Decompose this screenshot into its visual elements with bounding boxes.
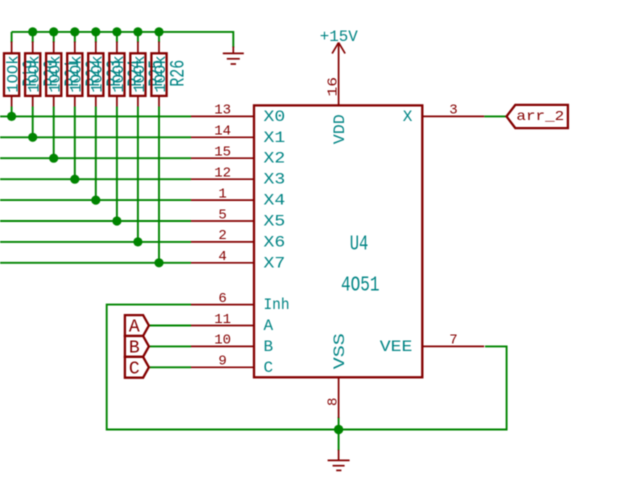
- pin 1 X4: [191, 199, 254, 201]
- global label arr_2: [507, 105, 568, 128]
- svg-text:X2: X2: [264, 150, 286, 168]
- wire X output: [484, 115, 506, 117]
- wire: [158, 32, 160, 43]
- junction node X3: [70, 175, 79, 184]
- svg-text:X7: X7: [264, 254, 286, 272]
- svg-text:VSS: VSS: [331, 333, 349, 369]
- wire: [74, 32, 76, 43]
- wire: [11, 107, 13, 117]
- svg-text:8: 8: [326, 398, 342, 406]
- wire: [32, 32, 34, 43]
- svg-text:X0: X0: [264, 108, 286, 126]
- svg-text:3: 3: [449, 103, 457, 119]
- svg-text:B: B: [129, 338, 140, 358]
- wire: [74, 107, 76, 180]
- svg-text:R26: R26: [167, 60, 190, 87]
- global label A: [125, 315, 149, 337]
- wire top bus: [12, 32, 234, 48]
- svg-text:X4: X4: [264, 192, 286, 210]
- junction dot VSS: [334, 425, 343, 434]
- pin 12 X3: [191, 178, 254, 180]
- junction top bus R21: [49, 27, 58, 36]
- wire: [32, 107, 34, 138]
- svg-text:C: C: [264, 359, 274, 377]
- pin 8 VSS: [338, 377, 340, 418]
- junction top bus R25: [133, 27, 142, 36]
- resistor R20: [25, 32, 64, 137]
- junction top bus R22: [70, 27, 79, 36]
- wire X7 row: [0, 262, 191, 264]
- svg-text:X6: X6: [264, 233, 286, 251]
- svg-text:+15V: +15V: [320, 28, 358, 46]
- svg-text:Inh: Inh: [264, 296, 290, 314]
- svg-text:1: 1: [218, 186, 226, 202]
- resistor R23: [88, 32, 127, 200]
- wire X0 row: [0, 115, 191, 117]
- global label C: [125, 357, 149, 379]
- svg-text:U4: U4: [350, 234, 369, 257]
- svg-text:4O51: 4O51: [341, 275, 380, 298]
- junction top bus R26: [154, 27, 163, 36]
- wire: [11, 32, 13, 43]
- junction top bus R24: [112, 27, 121, 36]
- pin 13 X0: [191, 115, 254, 117]
- wire X5 row: [0, 220, 191, 222]
- wire B label to pin: [149, 345, 191, 347]
- svg-text:15: 15: [214, 145, 231, 161]
- resistor R22: [67, 32, 106, 179]
- resistor R26: [151, 32, 190, 263]
- pin 14 X1: [191, 136, 254, 138]
- junction node X0: [7, 112, 16, 121]
- resistor R24: [109, 32, 148, 221]
- svg-text:VEE: VEE: [380, 338, 413, 356]
- pin 10 B: [191, 345, 254, 347]
- pin 4 X7: [191, 262, 254, 264]
- pin 6 Inh: [191, 304, 254, 306]
- svg-text:6: 6: [218, 291, 226, 307]
- junction top bus R20: [28, 27, 37, 36]
- wire X6 row: [0, 241, 191, 243]
- wire: [53, 107, 55, 159]
- pin 7 VEE: [422, 345, 484, 347]
- pin 15 X2: [191, 157, 254, 159]
- svg-text:arr_2: arr_2: [516, 109, 564, 125]
- junction node X4: [91, 196, 100, 205]
- wire: [137, 32, 139, 43]
- svg-text:13: 13: [214, 103, 231, 119]
- wire Inh + ground loop left: [107, 305, 507, 430]
- wire: [158, 107, 160, 263]
- svg-text:9: 9: [218, 354, 226, 370]
- svg-text:A: A: [264, 317, 274, 335]
- wire VSS to ground: [338, 417, 340, 451]
- wire: [53, 32, 55, 43]
- pin 3 X out: [422, 115, 484, 117]
- power +15V: [320, 28, 358, 54]
- ground: [328, 450, 350, 471]
- svg-text:X5: X5: [264, 213, 286, 231]
- svg-text:A: A: [129, 318, 140, 338]
- svg-text:X1: X1: [264, 129, 286, 147]
- wire: [95, 107, 97, 201]
- svg-text:X3: X3: [264, 171, 286, 189]
- svg-text:10: 10: [214, 333, 231, 349]
- svg-text:12: 12: [214, 166, 231, 182]
- resistor R21: [46, 32, 85, 158]
- wire X1 row: [0, 136, 191, 138]
- svg-text:14: 14: [214, 124, 231, 140]
- wire X2 row: [0, 157, 191, 159]
- svg-text:B: B: [264, 338, 274, 356]
- svg-text:4: 4: [218, 249, 226, 265]
- junction node X2: [49, 154, 58, 163]
- svg-text:5: 5: [218, 207, 226, 223]
- global label B: [125, 336, 149, 358]
- resistor R19: [4, 32, 43, 117]
- svg-text:7: 7: [449, 333, 457, 349]
- wire A label to pin: [149, 325, 191, 327]
- wire C label to pin: [149, 366, 191, 368]
- pin 16 VDD: [338, 43, 340, 106]
- IC body: [254, 105, 422, 377]
- ground: [223, 47, 244, 65]
- svg-text:2: 2: [218, 228, 226, 244]
- junction node X7: [154, 258, 163, 267]
- wire: [116, 107, 118, 222]
- pin 11 A: [191, 325, 254, 327]
- wire: [137, 107, 139, 242]
- junction node X5: [112, 216, 121, 225]
- svg-text:11: 11: [214, 312, 231, 328]
- junction node X6: [133, 237, 142, 246]
- pin 2 X6: [191, 241, 254, 243]
- wire: [95, 32, 97, 43]
- svg-text:16: 16: [326, 77, 342, 97]
- resistor R25: [130, 32, 169, 242]
- wire: [116, 32, 118, 43]
- IC U4 4051: [191, 43, 484, 418]
- junction top bus R23: [91, 27, 100, 36]
- svg-text:VDD: VDD: [331, 114, 349, 144]
- pin 5 X5: [191, 220, 254, 222]
- pin 9 C: [191, 366, 254, 368]
- svg-text:C: C: [129, 359, 140, 379]
- wire X4 row: [0, 199, 191, 201]
- wire X3 row: [0, 178, 191, 180]
- junction node X1: [28, 133, 37, 142]
- svg-text:X: X: [403, 108, 413, 126]
